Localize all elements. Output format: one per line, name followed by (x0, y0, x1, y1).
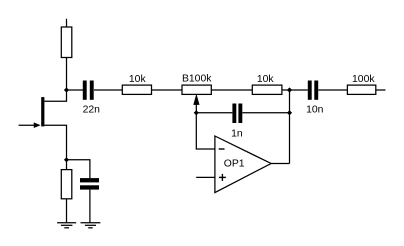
svg-text:10k: 10k (257, 74, 275, 85)
svg-text:1n: 1n (231, 129, 243, 140)
svg-text:OP1: OP1 (224, 158, 245, 169)
svg-text:B100k: B100k (182, 74, 212, 85)
svg-text:22n: 22n (83, 105, 101, 116)
svg-text:100k: 100k (352, 74, 375, 85)
svg-text:10k: 10k (129, 74, 147, 85)
svg-text:10n: 10n (306, 104, 324, 115)
